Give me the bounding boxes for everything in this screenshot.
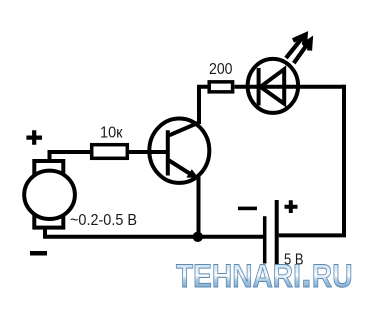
transistor Q1 <box>149 119 209 183</box>
wire R2 to LED and through to right rail <box>235 85 345 89</box>
junction node <box>193 232 203 242</box>
LED D1 <box>248 59 299 113</box>
plus polarity mark (source +) <box>26 130 42 145</box>
wire Q1 collector to R2 <box>199 87 209 124</box>
wire R1 to Q1 base <box>128 150 168 154</box>
svg-text:tehnari.ru: tehnari.ru <box>176 246 353 297</box>
svg-text:10к: 10к <box>100 125 123 142</box>
minus polarity mark (source -) <box>30 251 47 256</box>
svg-text:200: 200 <box>209 61 233 78</box>
resistor R2 <box>209 82 232 92</box>
LED emission arrows <box>286 35 310 63</box>
minus mark battery <box>238 207 257 211</box>
battery BT1 <box>265 200 277 278</box>
wire right rail (LED to battery +) <box>279 87 344 236</box>
plus mark battery <box>285 200 298 213</box>
source M1 (microphone capsule) <box>24 161 75 228</box>
wire source top to R1 <box>50 152 92 161</box>
wire Q1 emitter down to bottom rail <box>197 176 201 237</box>
svg-text:~0.2-0.5 В: ~0.2-0.5 В <box>70 212 137 229</box>
bottom wire (return rail) <box>45 228 263 237</box>
resistor R1 <box>92 145 128 159</box>
